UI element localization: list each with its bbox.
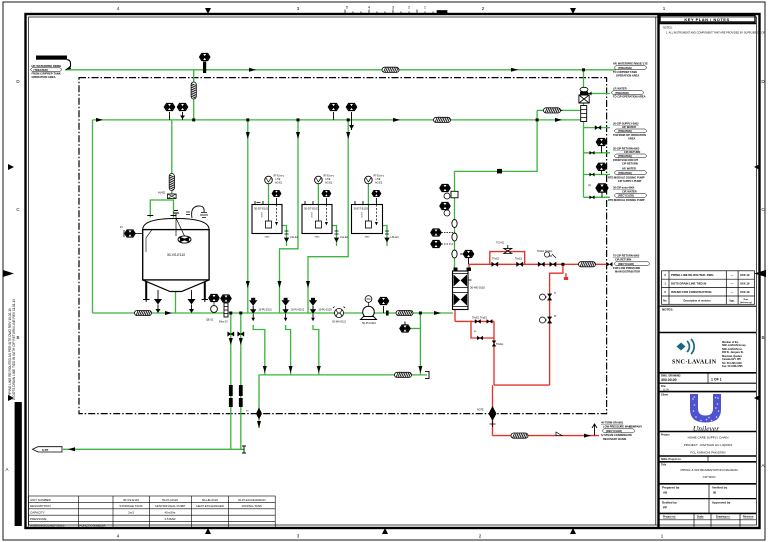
pipe HE bypass loop bottom xyxy=(455,320,494,322)
svg-text:Project no.: Project no. xyxy=(663,516,676,519)
svg-text:Scale: Scale xyxy=(697,516,704,519)
svg-text:FOR LOW PRESSURE: FOR LOW PRESSURE xyxy=(613,266,641,270)
node drain connector xyxy=(33,447,63,452)
pipe tank feed drop xyxy=(171,120,173,196)
svg-text:PI: PI xyxy=(120,225,123,229)
pipe left downcomer V1 xyxy=(92,120,94,313)
svg-text:TO/FROM CIP OPERATION: TO/FROM CIP OPERATION xyxy=(613,133,646,137)
svg-text:DOSING TANK: DOSING TANK xyxy=(242,504,262,508)
svg-text:3: 3 xyxy=(392,6,394,10)
svg-text:300.00.00: 300.00.00 xyxy=(661,378,677,382)
tank top nozzles xyxy=(147,215,176,217)
pipe mixer bypass stub xyxy=(405,328,420,330)
pipe branch to HE via right xyxy=(455,110,538,271)
svg-text:CENTRIFUGAL PUMP: CENTRIFUGAL PUMP xyxy=(155,504,186,508)
pipe branch stub with dot xyxy=(565,273,567,278)
svg-text:ISSUED FOR CONSTRUCTION 19.02.: ISSUED FOR CONSTRUCTION 19.02.2019 REV 2 xyxy=(17,433,22,525)
H2 coil xyxy=(434,117,451,122)
pipe utility branch 3 xyxy=(584,152,611,154)
steam line coil xyxy=(511,433,528,438)
flow arrows on green pipes xyxy=(68,68,563,452)
node steam label G8 xyxy=(601,420,642,441)
svg-text:(TREATED): (TREATED) xyxy=(618,154,632,158)
pipe tank feed split xyxy=(150,200,170,218)
svg-text:—: — xyxy=(731,273,734,277)
svg-text:CIP SUPPLY PUMP: CIP SUPPLY PUMP xyxy=(618,179,642,183)
pipe bottom cross line xyxy=(494,384,550,386)
svg-text:30-PU-E103: 30-PU-E103 xyxy=(319,309,333,312)
signature rows xyxy=(659,484,757,527)
pipe drain drop A xyxy=(230,313,232,449)
svg-text:Approved by: Approved by xyxy=(712,500,731,504)
dosing pump 30-PU-E103 xyxy=(309,298,333,322)
svg-text:40-TSRM-SR-0901: 40-TSRM-SR-0901 xyxy=(601,420,624,424)
top line coil xyxy=(382,67,399,72)
svg-text:LSL-E3: LSL-E3 xyxy=(391,236,400,239)
pipe tank2 outlet stub xyxy=(332,226,337,247)
svg-text:xxxx: xxxx xyxy=(265,236,271,239)
svg-text:(x): (x) xyxy=(588,183,591,187)
svg-text:50-PU-0110: 50-PU-0110 xyxy=(162,498,178,502)
svg-text:PIPING LINE RE-ROUTED: DWG: PIPING LINE RE-ROUTED: DWG xyxy=(671,273,714,277)
svg-text:(TREATED): (TREATED) xyxy=(618,66,632,70)
svg-text:DESCRIPTION: DESCRIPTION xyxy=(30,504,51,508)
tank drain valve right xyxy=(188,290,196,313)
red line coil xyxy=(579,262,596,267)
svg-text:HEAT EXCHANGER: HEAT EXCHANGER xyxy=(196,504,224,508)
svg-text:Drawing no.: Drawing no. xyxy=(716,516,731,519)
svg-text:E103: E103 xyxy=(360,213,362,219)
suction header coil xyxy=(135,310,152,315)
svg-text:50-HE-0110: 50-HE-0110 xyxy=(202,498,218,502)
svg-text:30-CIP-xxxx-0904: 30-CIP-xxxx-0904 xyxy=(613,186,635,190)
svg-text:FROM SUB CIRCUIT: FROM SUB CIRCUIT xyxy=(613,158,638,162)
svg-text:LOW PRESSURE MAIN: LOW PRESSURE MAIN xyxy=(603,425,632,429)
svg-text:75-CIP-RETURN-0905: 75-CIP-RETURN-0905 xyxy=(613,254,640,258)
svg-text:NOTES:: NOTES: xyxy=(662,308,673,312)
node utility label G6 xyxy=(608,186,647,203)
svg-text:WORKING/CONDITIONS: WORKING/CONDITIONS xyxy=(30,523,64,527)
drain line valves xyxy=(228,332,429,453)
dosing pump 30-PU-E101 xyxy=(249,298,272,322)
dwg no row xyxy=(659,373,757,397)
graphic scale bar xyxy=(345,6,447,15)
pipe upper sub header H3 xyxy=(537,109,583,111)
pipe suction header xyxy=(93,312,454,314)
svg-text:—: — xyxy=(731,281,734,285)
node red return label G7 xyxy=(613,254,650,274)
SNC-LAVALIN logo block xyxy=(659,339,757,373)
svg-text:App.: App. xyxy=(729,300,735,303)
svg-text:4: 4 xyxy=(368,6,370,10)
svg-text:RTD MODULE DOSING PUMP: RTD MODULE DOSING PUMP xyxy=(608,175,645,179)
pipe dosing tank2 feed + jog xyxy=(280,120,299,313)
svg-text:NOTE: NOTE xyxy=(477,409,484,412)
Unilever logo xyxy=(690,394,721,433)
svg-text:(RECYCLED): (RECYCLED) xyxy=(618,262,634,266)
node utility label G5 xyxy=(608,167,647,183)
HE feed line instruments xyxy=(431,184,474,264)
svg-text:360 St. Jacques St.: 360 St. Jacques St. xyxy=(722,351,744,354)
dosing pump 30-PU-E102 xyxy=(281,298,304,322)
svg-text:30-CIP-SUPPLY-0902: 30-CIP-SUPPLY-0902 xyxy=(613,122,639,126)
tank level instrument xyxy=(178,236,191,243)
svg-text:Prepared by: Prepared by xyxy=(662,486,680,490)
svg-text:E102: E102 xyxy=(310,213,312,219)
svg-text:Client: Client xyxy=(661,393,668,396)
svg-text:30-PU-E101: 30-PU-E101 xyxy=(259,309,273,312)
svg-text:SNC-LAVALIN Group: SNC-LAVALIN Group xyxy=(722,344,746,347)
pipe steam condensate line xyxy=(493,435,600,437)
svg-text:30-DT-E101/E102/E103: 30-DT-E101/E102/E103 xyxy=(238,498,266,502)
svg-text:HV-E1: HV-E1 xyxy=(158,191,166,195)
pipe HE top riser xyxy=(468,264,470,271)
svg-text:HP, WATER: HP, WATER xyxy=(622,125,636,129)
svg-text:Verified by: Verified by xyxy=(712,486,728,490)
node utility label G2 xyxy=(611,87,646,99)
svg-text:(TREATED): (TREATED) xyxy=(34,68,48,72)
pipe drain riser xyxy=(493,338,495,385)
svg-text:1 OF 1: 1 OF 1 xyxy=(711,378,722,382)
storage tank 30-VS-E110 xyxy=(143,206,209,302)
svg-text:B: B xyxy=(16,335,19,340)
svg-text:No.: No. xyxy=(663,300,667,303)
mixer 30-MX-0111 xyxy=(332,307,346,324)
tank drain valve left xyxy=(154,290,162,313)
tank vent xyxy=(192,206,205,218)
svg-text:HP, WATER/PRE RINSE/ LYE: HP, WATER/PRE RINSE/ LYE xyxy=(613,62,648,66)
red flow arrow xyxy=(584,434,591,438)
svg-text:MAIN DISTRIBUTOR: MAIN DISTRIBUTOR xyxy=(615,269,640,273)
pipe dosing tank3 feed + jog xyxy=(308,120,348,313)
dosing tank 30-DT-E102 xyxy=(302,175,335,239)
svg-text:XXX.19: XXX.19 xyxy=(740,290,750,294)
pipe utility branch 4 xyxy=(584,174,611,176)
svg-text:5: 5 xyxy=(346,6,348,10)
red end dot xyxy=(564,277,568,280)
tank feed valve xyxy=(158,174,176,199)
tank outlet instruments xyxy=(206,294,231,323)
heat exchanger 30-HE-0110 xyxy=(453,268,486,310)
svg-text:RECOVERY BASIN: RECOVERY BASIN xyxy=(603,437,626,441)
pipe steam drop xyxy=(492,385,494,436)
svg-text:30-CIP-SUPPLY-0901: 30-CIP-SUPPLY-0901 xyxy=(37,56,67,60)
svg-text:TKxE1 TKxE1: TKxE1 TKxE1 xyxy=(537,250,553,253)
svg-text:30-HE-0110: 30-HE-0110 xyxy=(470,286,485,290)
pipe top header H1 xyxy=(65,69,616,71)
svg-text:XXX.19: XXX.19 xyxy=(740,273,750,277)
node utility label G3 xyxy=(613,122,647,141)
pipe bottom header xyxy=(259,374,427,376)
svg-text:AG-E2: AG-E2 xyxy=(325,182,333,185)
pipe agitator feed tank2 xyxy=(317,184,319,205)
pipe pump bypass drop xyxy=(419,313,421,375)
svg-text:S RT: S RT xyxy=(42,448,49,452)
H2 valve pair 2 xyxy=(328,103,356,130)
node top-left supply label xyxy=(31,56,72,80)
svg-text:2: 2 xyxy=(408,6,410,10)
pipe bottom header drain drop xyxy=(258,375,260,428)
svg-text:30-VS-E110: 30-VS-E110 xyxy=(123,498,139,502)
pipe dosing pump2 discharge xyxy=(286,325,291,375)
svg-text:HP, WATER: HP, WATER xyxy=(622,167,636,171)
node utility label G4 xyxy=(613,147,647,166)
svg-text:(RECYCLED): (RECYCLED) xyxy=(606,429,622,433)
svg-text:Canada H2Y 1P5: Canada H2Y 1P5 xyxy=(722,358,741,361)
svg-text:PROJECT - RAFTAAN HC LIQUIDS: PROJECT - RAFTAAN HC LIQUIDS xyxy=(684,443,732,447)
pipe utility branch 1 xyxy=(584,93,611,95)
svg-text:HP, WATER/PRE RINSE: HP, WATER/PRE RINSE xyxy=(32,64,62,68)
svg-text:30-CIP-RETURN-0903: 30-CIP-RETURN-0903 xyxy=(613,147,640,151)
instrument cluster left downcomer xyxy=(222,297,230,301)
svg-text:(TREATED): (TREATED) xyxy=(618,129,632,133)
svg-text:DOTS DRAIN LINE TIED IN: DOTS DRAIN LINE TIED IN xyxy=(671,281,706,285)
revision table xyxy=(662,271,755,305)
svg-text:FCL KARACHI PAKISTAN: FCL KARACHI PAKISTAN xyxy=(691,451,726,455)
project block xyxy=(659,432,757,484)
svg-text:Fax: 514-866-0795: Fax: 514-866-0795 xyxy=(722,365,743,368)
svg-text:QE 01: QE 01 xyxy=(206,318,214,322)
svg-text:PP: PP xyxy=(663,505,667,509)
node utility label G1 xyxy=(613,62,648,78)
svg-text:TKxE1: TKxE1 xyxy=(492,258,500,261)
svg-text:AREA: AREA xyxy=(628,137,635,141)
svg-text:xxxx: xxxx xyxy=(365,236,371,239)
svg-text:CIP RETURN: CIP RETURN xyxy=(622,162,638,166)
battery limit crossing diamonds xyxy=(246,406,497,427)
pipe agitator feed tank3 xyxy=(367,184,369,205)
svg-text:COMPANY: COMPANY xyxy=(629,425,642,429)
pipe drain drop B xyxy=(240,313,242,449)
svg-text:CIP SKID: CIP SKID xyxy=(703,475,717,479)
pipe drain header xyxy=(63,448,244,450)
pipe tank1 outlet stub xyxy=(282,226,287,247)
pipe tank bottom outlet xyxy=(175,292,177,314)
battery limit dash-dot box xyxy=(79,78,607,414)
svg-text:TKxE1: TKxE1 xyxy=(496,343,504,346)
svg-text:1. ALL INSTRUMENT AND COMPONEN: 1. ALL INSTRUMENT AND COMPONENT THAT ARE… xyxy=(666,32,766,35)
svg-text:SNC·LAVALIN: SNC·LAVALIN xyxy=(672,360,717,366)
svg-text:ISSUED FOR CONSTRUCTION: ISSUED FOR CONSTRUCTION xyxy=(671,290,711,294)
svg-text:1: 1 xyxy=(424,6,426,10)
svg-text:30-VS-E110: 30-VS-E110 xyxy=(167,253,185,257)
svg-text:PI: PI xyxy=(554,315,557,318)
svg-text:Revision: Revision xyxy=(743,516,754,519)
svg-text:CAPACITY: CAPACITY xyxy=(30,511,45,515)
svg-text:LP, WATER: LP, WATER xyxy=(613,87,627,91)
svg-text:CIP, RETURN: CIP, RETURN xyxy=(615,258,631,262)
tank outlet valve clusters xyxy=(285,231,400,242)
utility branch valves xyxy=(587,92,608,199)
svg-text:TKxE1 TKxE1: TKxE1 TKxE1 xyxy=(472,317,488,320)
junction dots xyxy=(192,68,585,314)
svg-text:LSL-E2: LSL-E2 xyxy=(340,236,349,239)
svg-text:STORAGE TANK: STORAGE TANK xyxy=(119,504,142,508)
pump bypass valve xyxy=(400,322,410,333)
svg-text:TO CIP/PREP TANK: TO CIP/PREP TANK xyxy=(613,70,637,74)
svg-text:30-DT-E103: 30-DT-E103 xyxy=(354,207,369,211)
pipe drop from H1 to H2 xyxy=(193,70,195,120)
pump 50-PU-0110 xyxy=(361,296,389,325)
pipe dosing pump3 discharge xyxy=(313,325,319,375)
pipe return branch elbow xyxy=(550,264,563,385)
pipe right column vertical xyxy=(583,70,585,198)
svg-text:UNIT NUMBER: UNIT NUMBER xyxy=(30,498,52,502)
svg-text:Description of revision: Description of revision xyxy=(683,300,711,303)
title panel left edge xyxy=(657,14,659,528)
svg-text:FROM CIP/PREP TANK: FROM CIP/PREP TANK xyxy=(32,72,61,76)
pipe second header H2 xyxy=(93,119,584,121)
svg-text:Title: Title xyxy=(661,464,667,467)
svg-text:HOME CARE SUPPLY CHAIN: HOME CARE SUPPLY CHAIN xyxy=(688,435,729,439)
svg-text:Date: Date xyxy=(744,298,750,301)
svg-text:OPERATION AREA: OPERATION AREA xyxy=(32,75,56,79)
svg-text:Project: Project xyxy=(661,433,670,436)
svg-text:LSL-E1: LSL-E1 xyxy=(290,236,299,239)
svg-text:30-MX-0111: 30-MX-0111 xyxy=(332,320,346,324)
svg-text:A: A xyxy=(761,463,764,468)
pipe control bypass loop xyxy=(490,252,525,265)
pipe utility branch 5 xyxy=(584,196,611,198)
svg-text:TO CIP OPERATION AREA: TO CIP OPERATION AREA xyxy=(613,95,646,99)
svg-text:RTD MODULE DOSING PUMP: RTD MODULE DOSING PUMP xyxy=(608,198,645,202)
svg-text:30-DT-E101: 30-DT-E101 xyxy=(254,207,269,211)
svg-text:TI: TI xyxy=(554,292,556,295)
svg-text:XXX.19: XXX.19 xyxy=(740,281,750,285)
svg-text:TCV-E1: TCV-E1 xyxy=(496,242,505,245)
right column top valve xyxy=(579,87,589,121)
bottom header coil xyxy=(395,372,412,377)
pipe tank3 outlet stub xyxy=(383,226,387,247)
pipe dosing pump1 discharge xyxy=(253,325,265,375)
svg-text:S/ STEAM CONDENSATE: S/ STEAM CONDENSATE xyxy=(601,433,632,437)
svg-text:CIP, RETURN: CIP, RETURN xyxy=(624,150,640,154)
svg-text:Drafted by: Drafted by xyxy=(662,500,677,504)
dosing tank 30-DT-E103 xyxy=(352,175,385,239)
tank side valve xyxy=(120,225,143,237)
control valve on top header xyxy=(200,53,210,73)
svg-text:(RECYCLED): (RECYCLED) xyxy=(618,194,634,198)
pipe HE bottom drop xyxy=(454,310,456,322)
svg-text:(TREATED): (TREATED) xyxy=(615,91,629,95)
svg-text:PIPING & INSTRUMENTATION DIAGR: PIPING & INSTRUMENTATION DIAGRAM xyxy=(680,468,738,472)
svg-text:E101: E101 xyxy=(260,213,262,219)
svg-text:1. DOTS DRAIN LINE TIED IN WIT: 1. DOTS DRAIN LINE TIED IN WITH CIP RETU… xyxy=(12,299,16,400)
svg-text:FUNCTION/MEDIA: FUNCTION/MEDIA xyxy=(80,523,106,527)
svg-text:2m3: 2m3 xyxy=(128,511,134,515)
svg-text:50-PU-0110: 50-PU-0110 xyxy=(362,321,376,325)
pipe utility branch 2 xyxy=(584,127,611,129)
svg-text:30-PU-E102: 30-PU-E102 xyxy=(291,309,305,312)
svg-text:30-DT-E102: 30-DT-E102 xyxy=(304,207,319,211)
svg-text:CIP, WATER: CIP, WATER xyxy=(622,189,637,193)
H3 coil xyxy=(544,108,561,113)
pipe CIP return main xyxy=(469,263,609,265)
svg-text:Elec 03: Elec 03 xyxy=(219,320,228,324)
svg-text:AG-E3: AG-E3 xyxy=(375,182,383,185)
pipe dosing tank1 feed xyxy=(247,120,249,313)
steam line symbols xyxy=(556,424,597,436)
svg-text:TKxE1: TKxE1 xyxy=(515,258,523,261)
svg-text:NOTES:: NOTES: xyxy=(663,27,673,30)
svg-text:KEY PLAN / NOTES: KEY PLAN / NOTES xyxy=(684,17,729,22)
discharge coil xyxy=(396,310,413,315)
svg-text:OPERATION AREA: OPERATION AREA xyxy=(616,74,639,78)
svg-text:B: B xyxy=(761,335,764,340)
svg-text:A: A xyxy=(5,467,8,472)
red loop valves xyxy=(472,242,612,347)
key plan header xyxy=(659,16,766,35)
drop coil xyxy=(191,82,196,99)
svg-text:(TREATED): (TREATED) xyxy=(618,171,632,175)
svg-text:SNCL Project no.: SNCL Project no. xyxy=(661,458,682,461)
svg-text:PRESSURE: PRESSURE xyxy=(30,517,47,521)
svg-text:(dd.mm.yy): (dd.mm.yy) xyxy=(740,302,752,304)
svg-text:40m3/hr: 40m3/hr xyxy=(164,511,175,515)
pipe agitator feed tank1 xyxy=(268,184,270,205)
H2 valve pair 1 xyxy=(164,103,187,120)
svg-text:AG-E1: AG-E1 xyxy=(275,182,283,185)
left margin vertical revision text xyxy=(8,299,22,526)
dosing tank 30-DT-E101 xyxy=(252,175,285,239)
svg-text:4.5 BAR: 4.5 BAR xyxy=(164,517,176,521)
svg-text:xxxx: xxxx xyxy=(315,236,321,239)
svg-text:—: — xyxy=(731,290,734,294)
